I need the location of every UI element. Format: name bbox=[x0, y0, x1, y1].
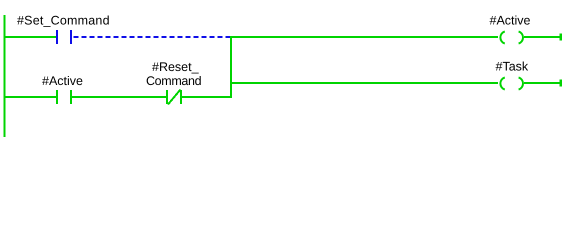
wire between contacts bbox=[72, 96, 166, 98]
svg-text:#Reset_: #Reset_ bbox=[152, 60, 200, 74]
svg-text:#Active: #Active bbox=[42, 74, 83, 88]
wire coil Task to right rail bbox=[524, 82, 560, 84]
svg-text:#Task: #Task bbox=[496, 60, 529, 74]
wire branch junction to coil Task bbox=[230, 82, 498, 84]
left power rail bbox=[4, 15, 6, 137]
wire rung1 from rail to contact bbox=[4, 36, 57, 38]
svg-text:Command: Command bbox=[146, 74, 202, 88]
wire coil Active to right rail bbox=[524, 36, 560, 38]
wire rung2 to junction bbox=[182, 96, 232, 98]
contact Reset_Command (NC, green) bbox=[166, 90, 182, 105]
coil #Active bbox=[500, 32, 523, 44]
svg-text:#Set_Command: #Set_Command bbox=[17, 14, 110, 28]
wire rung1 junction to coil Active bbox=[230, 36, 498, 38]
coil #Task bbox=[500, 78, 523, 90]
contact Set_Command (NO, open, blue) bbox=[56, 30, 72, 44]
svg-text:#Active: #Active bbox=[490, 14, 531, 28]
wire rung1 dashed no-power-flow segment bbox=[74, 36, 231, 38]
contact Active (NO, closed, green) bbox=[56, 90, 72, 104]
right rail stub rung2 bbox=[560, 80, 563, 87]
right rail stub rung1 bbox=[560, 34, 563, 41]
node OR-branch junction vertical wire bbox=[230, 36, 232, 98]
wire rung2 from rail to contact bbox=[4, 96, 57, 98]
